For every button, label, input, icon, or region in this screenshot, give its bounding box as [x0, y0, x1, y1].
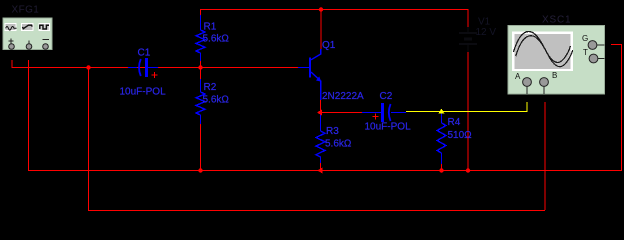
svg-text:XFG1: XFG1: [12, 5, 40, 16]
junction node ground R3: [318, 168, 323, 174]
junction node mid R1R2: [198, 65, 202, 69]
svg-text:5.6kΩ: 5.6kΩ: [325, 139, 352, 150]
wire R2 top red: [200, 67, 202, 79]
battery V1 (black plates, nearly invisible on black): [459, 27, 477, 52]
wire yellow scope A vertical: [526, 102, 528, 112]
junction node top-collector: [319, 7, 323, 11]
wire emitter vertical red: [320, 100, 322, 114]
wire R2 bottom red: [200, 124, 202, 171]
junction node R4 top yellow: [439, 109, 445, 114]
wire scope B down to bottom rail: [544, 102, 546, 210]
wire scope G to right edge: [611, 44, 622, 171]
svg-text:R4: R4: [448, 117, 461, 128]
svg-text:Q1: Q1: [322, 40, 336, 51]
svg-text:V1: V1: [478, 17, 491, 28]
svg-text:5.6kΩ: 5.6kΩ: [203, 95, 230, 106]
junction node emitter: [317, 110, 322, 116]
svg-text:510Ω: 510Ω: [448, 130, 473, 141]
wire collector drop x=321: [320, 9, 322, 49]
junction node mid x=88: [86, 65, 90, 69]
wire R4 bottom red: [441, 164, 443, 171]
wire R1 bottom red: [200, 61, 202, 67]
wire emitter to C2 y=112: [320, 112, 362, 114]
wire FG common down to ground rail: [28, 60, 30, 170]
junction node ground R4: [439, 168, 443, 172]
resistor R4: [437, 112, 446, 164]
resistor R3: [316, 114, 325, 163]
junction node ground R2: [198, 168, 202, 172]
wire yellow C2 to scope A y=112: [406, 111, 527, 113]
svg-text:10uF-POL: 10uF-POL: [120, 87, 167, 98]
wire V1 top stub: [467, 9, 469, 27]
svg-text:C2: C2: [380, 91, 393, 102]
wire R3 bottom red: [320, 163, 322, 171]
svg-text:R1: R1: [204, 22, 217, 33]
wire bottom rail y=210: [88, 210, 545, 212]
svg-text:2N2222A: 2N2222A: [322, 91, 364, 102]
svg-text:XSC1: XSC1: [542, 15, 571, 26]
svg-text:10uF-POL: 10uF-POL: [365, 122, 412, 133]
transistor Q1: [298, 49, 321, 100]
oscilloscope XSC1: [508, 26, 605, 95]
wire V1 bottom to ground rail: [467, 52, 469, 170]
svg-text:R2: R2: [204, 82, 217, 93]
svg-text:5.6kΩ: 5.6kΩ: [203, 34, 230, 45]
wire ground rail y=170: [28, 170, 621, 172]
svg-text:R3: R3: [326, 126, 339, 137]
function generator XFG1: [3, 18, 52, 50]
svg-text:12 V: 12 V: [476, 27, 497, 38]
svg-text:T: T: [583, 48, 588, 57]
capacitor C1: [128, 58, 158, 77]
junction node ground V1: [466, 168, 470, 172]
wire FG plus pin down: [11, 60, 13, 68]
resistor R1: [196, 15, 205, 61]
wire mid (base net) y=67: [12, 67, 299, 69]
wire top rail y=9: [200, 9, 468, 11]
resistor R2: [196, 79, 205, 124]
svg-text:A: A: [515, 72, 521, 81]
wire node drop x=88 to bottom rail: [88, 67, 90, 210]
svg-text:B: B: [552, 71, 557, 80]
wire R1 top red: [200, 9, 202, 15]
capacitor C2: [362, 103, 406, 122]
svg-text:G: G: [582, 34, 588, 43]
svg-text:C1: C1: [138, 48, 151, 59]
